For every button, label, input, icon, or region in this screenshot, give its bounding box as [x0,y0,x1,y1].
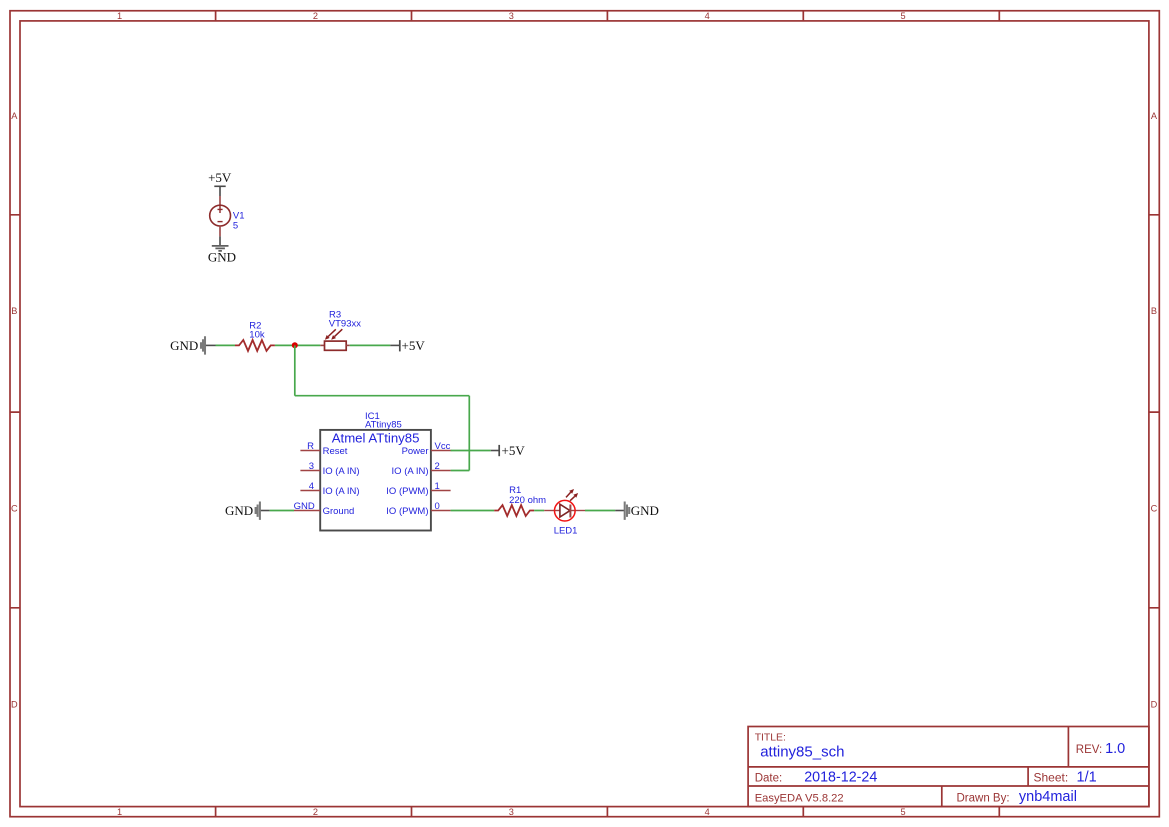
resistor R1 [494,505,534,516]
photoresistor R3 body [325,341,347,350]
resistor R2 [235,340,275,351]
svg-text:Drawn By:: Drawn By: [957,793,1010,805]
+5V power flag (right of R3) [399,340,401,351]
V1 minus sign [218,221,223,223]
pin 3 line [300,470,320,472]
LED1 cathode bar [569,505,571,518]
svg-text:GND: GND [225,503,253,518]
svg-text:Atmel ATtiny85: Atmel ATtiny85 [332,430,420,445]
pin 1 line [431,490,451,492]
svg-text:REV:: REV: [1076,744,1102,756]
svg-text:Sheet:: Sheet: [1034,770,1069,784]
wire GND to R2 [216,344,236,346]
svg-text:B: B [1151,306,1157,316]
svg-text:GND: GND [631,503,659,518]
pin GND line [294,510,320,512]
LED1 emission arrow 1 [566,492,571,497]
svg-text:TITLE:: TITLE: [755,733,786,744]
svg-text:1/1: 1/1 [1077,769,1097,785]
svg-text:Reset: Reset [323,446,348,457]
svg-text:GND: GND [294,501,315,512]
LED1 emission arrow 2 [570,496,575,500]
svg-text:1: 1 [435,481,440,492]
ground symbol below V1 [212,246,229,251]
svg-text:3: 3 [509,11,514,21]
svg-text:+5V: +5V [402,338,426,353]
svg-text:A: A [11,111,18,121]
pin 2 line [431,470,451,472]
LED1 cathode pin [570,510,585,512]
wire +5V to V1 [219,186,221,196]
svg-text:1: 1 [117,807,122,817]
wire down to pin 2 [468,396,470,471]
svg-text:Ground: Ground [323,506,355,517]
svg-text:C: C [11,503,18,513]
wire node down [294,345,296,395]
svg-text:4: 4 [309,481,314,492]
pin 4 line [300,490,320,492]
svg-text:C: C [1151,503,1158,513]
pin R (Reset) line [300,450,320,452]
+5V power flag (at Vcc) [498,445,500,456]
svg-text:GND: GND [170,338,198,353]
svg-text:IO (PWM): IO (PWM) [386,506,428,517]
svg-text:attiny85_sch: attiny85_sch [760,744,844,761]
svg-text:5: 5 [901,807,906,817]
R3 right pin [346,344,350,346]
wire pin 0 to R1 [451,510,495,512]
svg-text:IO (A IN): IO (A IN) [323,486,360,497]
wire V1 to GND [219,236,221,245]
svg-text:Vcc: Vcc [435,441,451,452]
svg-text:IO (A IN): IO (A IN) [392,466,429,477]
svg-text:D: D [1151,700,1158,710]
title block outline [748,727,1149,807]
voltage source V1 body [210,205,231,226]
svg-text:B: B [11,306,17,316]
LED1 diode triangle [560,504,570,517]
wire stub at Vcc +5V flag [491,450,499,452]
svg-text:GND: GND [208,250,236,265]
V1 negative pin [219,226,221,236]
ground flag right of LED [625,502,630,520]
wire LED1 to GND [585,510,615,512]
svg-text:5: 5 [233,221,238,232]
svg-text:10k: 10k [249,329,265,340]
svg-text:IO (A IN): IO (A IN) [323,466,360,477]
svg-text:4: 4 [705,807,710,817]
ground flag left of IC [256,502,260,520]
svg-text:5: 5 [901,11,906,21]
svg-text:220 ohm: 220 ohm [509,495,546,506]
svg-text:D: D [11,700,18,710]
svg-text:2018-12-24: 2018-12-24 [804,769,877,785]
R3 light arrow 1 [328,329,336,336]
ground flag left of R2 [201,336,205,354]
svg-text:1.0: 1.0 [1105,741,1125,757]
R3 left pin [320,344,324,346]
wire R1 to LED1 [534,510,544,512]
wire into pin 2 [451,470,470,472]
V1 plus sign [218,206,223,213]
wire stub at +5V flag [390,344,400,346]
wire across to IC column [295,395,470,397]
wire GND flag stub at IC [261,510,270,512]
wire R3 to +5V [350,344,391,346]
svg-text:+5V: +5V [502,443,526,458]
LED1 body circle [555,500,576,521]
svg-text:0: 0 [435,501,440,512]
svg-text:ATtiny85: ATtiny85 [365,419,402,430]
svg-text:ynb4mail: ynb4mail [1019,789,1077,805]
svg-text:R: R [307,441,314,452]
svg-text:Power: Power [402,446,429,457]
+5V power flag (top of V1) [214,185,225,187]
wire GND flag stub [206,344,216,346]
svg-text:IO (PWM): IO (PWM) [386,486,428,497]
junction node R2/R3/IC [292,342,298,348]
svg-text:A: A [1151,111,1158,121]
svg-text:3: 3 [509,807,514,817]
svg-text:EasyEDA V5.8.22: EasyEDA V5.8.22 [755,793,844,805]
svg-text:4: 4 [705,11,710,21]
svg-text:1: 1 [117,11,122,21]
wire GND flag stub right of LED [615,510,624,512]
wire Vcc to +5V [451,450,491,452]
svg-text:LED1: LED1 [554,526,578,537]
R3 light arrow 2 [335,329,343,336]
wire GND to Ground pin [270,510,294,512]
svg-text:Date:: Date: [755,772,783,784]
LED1 anode pin [544,510,560,512]
svg-text:2: 2 [313,11,318,21]
svg-text:+5V: +5V [208,170,232,185]
V1 positive pin [219,196,221,205]
svg-text:3: 3 [309,461,314,472]
svg-text:2: 2 [435,461,440,472]
svg-text:VT93xx: VT93xx [329,319,361,330]
wire R2 to R3 [275,344,320,346]
op-amp IC1 body box [320,430,431,531]
pin 0 line [431,510,451,512]
svg-text:2: 2 [313,807,318,817]
pin Vcc line [431,450,452,452]
